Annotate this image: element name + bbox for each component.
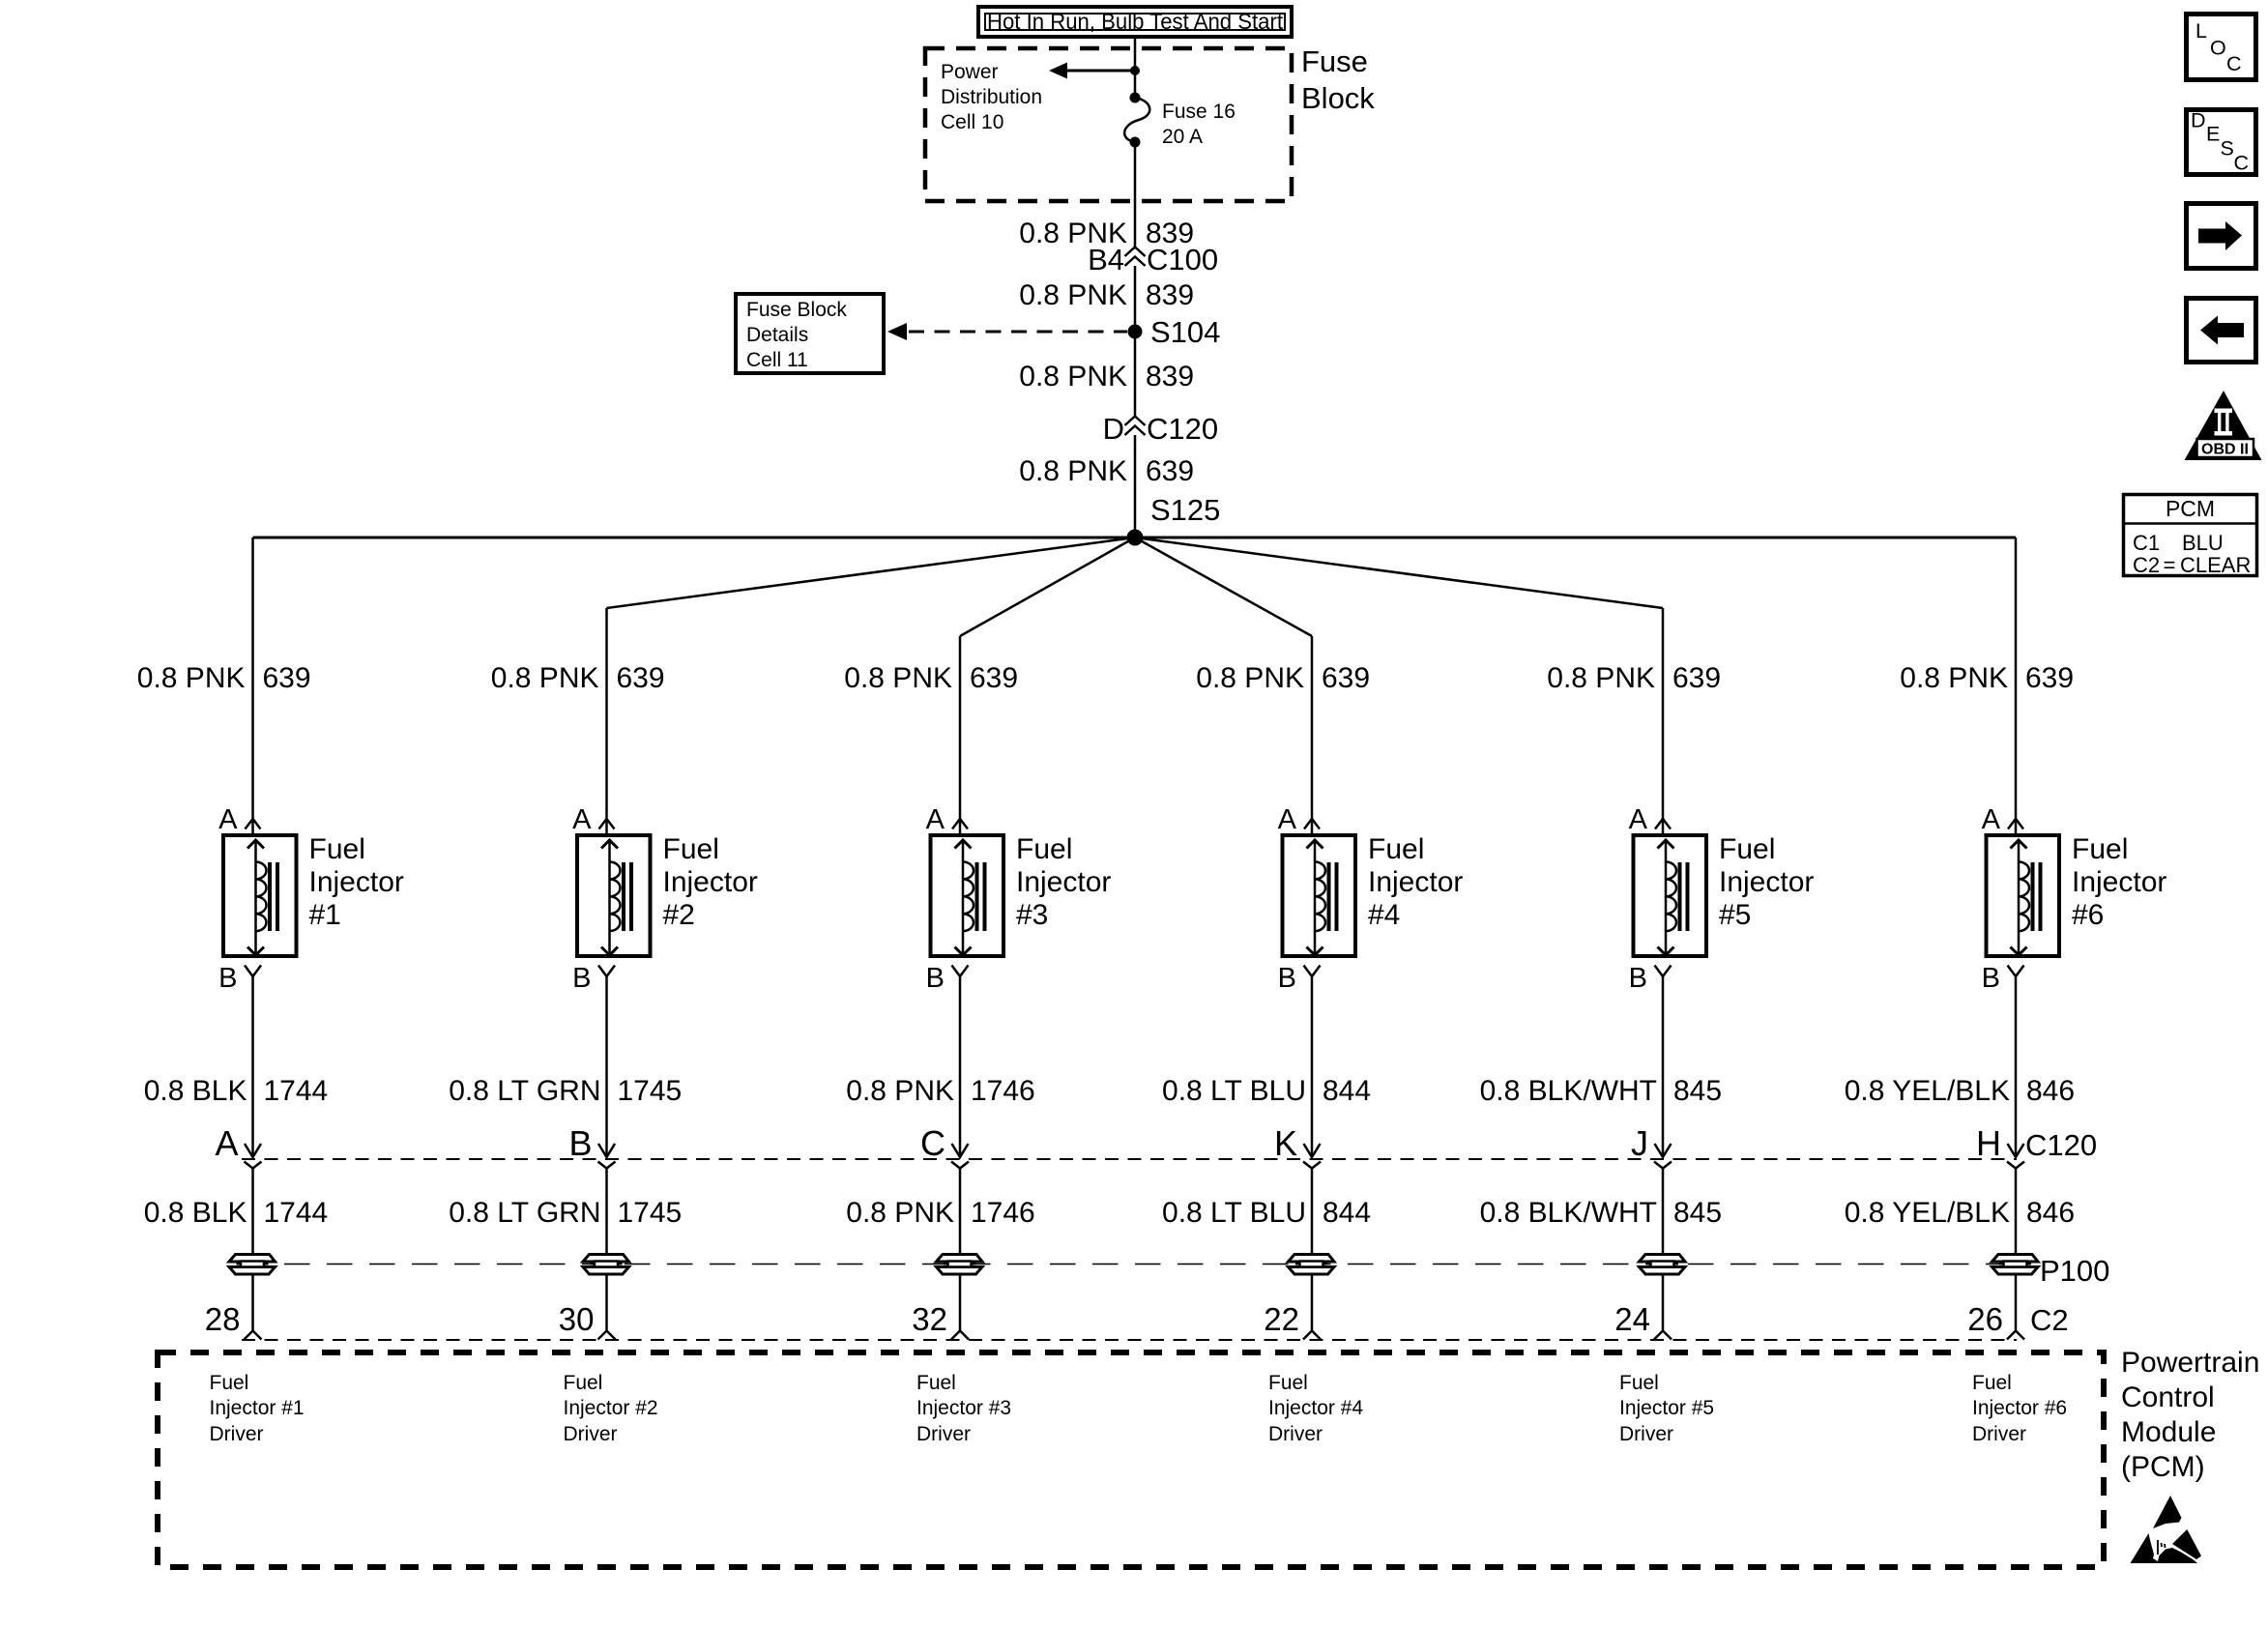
svg-text:Injector: Injector	[1719, 866, 1814, 898]
svg-text:839: 839	[1146, 279, 1194, 311]
wire label 0.8 LT GRN 1745 (above C120)	[449, 1075, 682, 1107]
svg-text:0.8 LT GRN: 0.8 LT GRN	[449, 1197, 600, 1229]
PCM driver function label 4	[1268, 1372, 1363, 1445]
wire 1744 segment C120 to PCM pin	[251, 1169, 254, 1331]
svg-text:B: B	[568, 1123, 592, 1163]
svg-text:BLU: BLU	[2182, 531, 2224, 555]
svg-text:0.8 PNK: 0.8 PNK	[491, 662, 599, 694]
svg-text:Fuel: Fuel	[1719, 833, 1775, 865]
wire label 0.8 PNK 639 branch 3	[844, 662, 1018, 694]
svg-text:Block: Block	[1301, 81, 1375, 115]
wire 844 segment C120 to PCM pin	[1311, 1169, 1314, 1331]
wire 845 segment C120 to PCM pin	[1662, 1169, 1665, 1331]
svg-text:A: A	[1278, 804, 1297, 835]
svg-text:Cell 10: Cell 10	[941, 111, 1003, 133]
svg-text:Cell 11: Cell 11	[746, 349, 808, 371]
svg-text:A: A	[926, 804, 945, 835]
svg-text:846: 846	[2026, 1197, 2075, 1229]
svg-text:30: 30	[559, 1301, 595, 1337]
svg-text:844: 844	[1323, 1075, 1371, 1107]
svg-text:B: B	[1629, 963, 1647, 994]
svg-text:639: 639	[1672, 662, 1721, 694]
PCM driver function label 6	[1972, 1372, 2067, 1445]
svg-text:Fuse: Fuse	[1301, 44, 1368, 78]
svg-text:0.8 LT BLU: 0.8 LT BLU	[1162, 1197, 1306, 1229]
svg-text:Injector: Injector	[663, 866, 758, 898]
wire 844 segment injector 4 to C120	[1311, 976, 1314, 1157]
svg-text:C2: C2	[2030, 1303, 2069, 1337]
PCM pin 30 terminal chevron	[598, 1331, 616, 1340]
connector C120 pin D chevrons	[1125, 417, 1146, 436]
svg-text:Driver: Driver	[564, 1423, 618, 1445]
svg-text:OBD II: OBD II	[2201, 442, 2249, 458]
svg-text:CLEAR: CLEAR	[2180, 553, 2251, 577]
svg-text:Powertrain: Powertrain	[2121, 1347, 2259, 1379]
svg-text:Fuse Block: Fuse Block	[746, 299, 847, 321]
svg-text:J: J	[1631, 1123, 1648, 1163]
svg-text:0.8 YEL/BLK: 0.8 YEL/BLK	[1845, 1075, 2010, 1107]
connector C2 dashed body line	[242, 1339, 2017, 1341]
PCM dashed outline box	[158, 1352, 2104, 1567]
wire label 0.8 LT BLU 844 (above C120)	[1162, 1075, 1371, 1107]
connector C100 pin B4 chevrons	[1125, 247, 1146, 267]
PCM driver function label 1	[210, 1372, 305, 1445]
connector C120 label (trunk)	[1103, 412, 1219, 446]
svg-text:20 A: 20 A	[1162, 126, 1203, 148]
svg-text:Power: Power	[941, 61, 999, 83]
injector 2 pin B	[572, 963, 615, 994]
wire label 0.8 PNK 639 branch 2	[491, 662, 665, 694]
svg-text:Injector #1: Injector #1	[210, 1397, 305, 1419]
svg-text:1744: 1744	[264, 1197, 329, 1229]
svg-text:#4: #4	[1368, 899, 1400, 931]
connector C120 pin A arrowhead	[245, 1144, 262, 1169]
svg-text:#2: #2	[663, 899, 695, 931]
svg-text:32: 32	[912, 1301, 947, 1337]
svg-text:K: K	[1274, 1123, 1297, 1163]
svg-text:C100: C100	[1147, 243, 1218, 276]
svg-text:C: C	[920, 1123, 945, 1163]
svg-text:P100: P100	[2040, 1254, 2109, 1288]
svg-text:Injector: Injector	[1368, 866, 1463, 898]
svg-text:D: D	[2191, 109, 2206, 132]
svg-text:Driver: Driver	[916, 1423, 971, 1445]
svg-text:0.8 LT BLU: 0.8 LT BLU	[1162, 1075, 1306, 1107]
svg-text:#3: #3	[1016, 899, 1048, 931]
connector C120 pin J arrowhead	[1654, 1144, 1672, 1169]
wire label 0.8 PNK 639 (trunk)	[1019, 455, 1194, 487]
svg-text:S125: S125	[1150, 493, 1220, 527]
connector C120 pin K arrowhead	[1303, 1144, 1321, 1169]
fuel injector #4 component box	[1283, 835, 1356, 956]
connector P100 pass-through symbol branch 4	[1289, 1255, 1335, 1275]
wire 1746 segment C120 to PCM pin	[959, 1169, 962, 1331]
fuel injector #5 name label	[1719, 833, 1814, 931]
svg-text:Fuel: Fuel	[1972, 1372, 2012, 1394]
svg-text:Driver: Driver	[1972, 1423, 2026, 1445]
svg-text:0.8 PNK: 0.8 PNK	[1019, 279, 1127, 311]
svg-text:Fuel: Fuel	[663, 833, 719, 865]
PCM pin 28 terminal chevron	[245, 1331, 262, 1340]
svg-text:0.8 PNK: 0.8 PNK	[846, 1075, 954, 1107]
splice S104	[1128, 325, 1143, 339]
fuse F16 20A symbol	[1124, 93, 1149, 148]
svg-text:0.8 PNK: 0.8 PNK	[1019, 455, 1127, 487]
svg-text:Injector #6: Injector #6	[1972, 1397, 2067, 1419]
svg-text:C1: C1	[2133, 531, 2160, 555]
svg-text:L: L	[2195, 19, 2207, 43]
connector C100 label	[1088, 243, 1218, 276]
PCM pin 24 terminal chevron	[1654, 1331, 1672, 1340]
connector P100 dashed body line	[242, 1264, 2017, 1265]
injector 2 pin A	[572, 804, 614, 835]
svg-text:#5: #5	[1719, 899, 1751, 931]
wire 1746 segment injector 3 to C120	[959, 976, 962, 1157]
wire label 0.8 PNK 639 branch 5	[1547, 662, 1721, 694]
svg-text:A: A	[218, 804, 238, 835]
svg-text:Injector: Injector	[2072, 866, 2166, 898]
wire label 0.8 BLK 1744 (below C120)	[144, 1197, 329, 1229]
wire label 0.8 YEL/BLK 846 (below C120)	[1845, 1197, 2075, 1229]
wire 639 PNK branch 2 vertical	[605, 608, 608, 835]
svg-text:#6: #6	[2072, 899, 2104, 931]
svg-text:(PCM): (PCM)	[2121, 1451, 2205, 1483]
svg-text:0.8 BLK: 0.8 BLK	[144, 1075, 247, 1107]
injector 1 pin A	[218, 804, 260, 835]
svg-text:B: B	[1982, 963, 2000, 994]
OBD II triangle icon	[2185, 391, 2262, 460]
junction dot at arrow takeoff	[1130, 66, 1140, 75]
svg-text:E: E	[2206, 123, 2220, 146]
injector 4 pin B	[1278, 963, 1321, 994]
right arrow nav icon	[2187, 204, 2256, 269]
ESD warning triangle icon	[2131, 1496, 2202, 1563]
svg-text:C120: C120	[1147, 412, 1218, 446]
wire fan-out diagonal to injector 5	[1135, 538, 1663, 608]
svg-text:Driver: Driver	[210, 1423, 264, 1445]
svg-text:A: A	[572, 804, 592, 835]
svg-text:28: 28	[205, 1301, 241, 1337]
svg-text:24: 24	[1614, 1301, 1650, 1337]
fuel injector #2 name label	[663, 833, 758, 931]
wire 639 PNK branch 3 vertical	[959, 636, 962, 835]
LOC nav icon	[2187, 15, 2256, 80]
svg-text:639: 639	[970, 662, 1018, 694]
fuel injector #2 component box	[577, 835, 651, 956]
svg-text:A: A	[1629, 804, 1648, 835]
fuel injector #6 name label	[2072, 833, 2166, 931]
injector 1 pin B	[218, 963, 261, 994]
power distribution cell reference text	[941, 61, 1042, 133]
svg-text:H: H	[1976, 1123, 2001, 1163]
svg-text:0.8 BLK/WHT: 0.8 BLK/WHT	[1480, 1075, 1657, 1107]
wire 639 PNK branch 6 vertical	[2015, 538, 2018, 835]
wire label 0.8 PNK 839 (3)	[1019, 361, 1194, 392]
svg-text:0.8 PNK: 0.8 PNK	[1196, 662, 1304, 694]
svg-text:845: 845	[1673, 1075, 1722, 1107]
svg-text:Control: Control	[2121, 1381, 2215, 1413]
svg-text:Injector #4: Injector #4	[1268, 1397, 1363, 1419]
svg-text:Fuel: Fuel	[916, 1372, 956, 1394]
wire 1745 segment injector 2 to C120	[605, 976, 608, 1157]
svg-text:B4: B4	[1088, 243, 1124, 276]
wire 639 PNK branch 5 vertical	[1662, 608, 1665, 835]
wire label 0.8 PNK 839 (1)	[1019, 218, 1194, 249]
svg-text:Driver: Driver	[1619, 1423, 1673, 1445]
PCM driver function label 2	[564, 1372, 658, 1445]
wire fan-out diagonal to injector 2	[607, 538, 1136, 608]
svg-text:Fuel: Fuel	[309, 833, 365, 865]
left arrow nav icon	[2187, 299, 2256, 363]
svg-text:Fuel: Fuel	[1268, 1372, 1308, 1394]
injector 6 pin B	[1982, 963, 2024, 994]
svg-text:B: B	[218, 963, 237, 994]
wire 846 segment C120 to PCM pin	[2015, 1169, 2018, 1331]
arrow to power distribution	[1049, 63, 1135, 79]
svg-text:639: 639	[263, 662, 311, 694]
wire 639 PNK branch 1 vertical	[251, 538, 254, 835]
wire label 0.8 PNK 639 branch 6	[1900, 662, 2074, 694]
svg-text:639: 639	[2025, 662, 2074, 694]
wire label 0.8 PNK 1746 (above C120)	[846, 1075, 1034, 1107]
svg-text:Fuel: Fuel	[210, 1372, 249, 1394]
svg-text:B: B	[572, 963, 591, 994]
connector C120 pin B arrowhead	[598, 1144, 616, 1169]
svg-text:S104: S104	[1150, 315, 1220, 349]
svg-text:Injector #3: Injector #3	[916, 1397, 1011, 1419]
fuse block name label	[1301, 44, 1375, 115]
svg-text:#1: #1	[309, 899, 341, 931]
splice S125 junction dot	[1127, 530, 1144, 546]
fuel injector #3 name label	[1016, 833, 1111, 931]
PCM driver function label 3	[916, 1372, 1011, 1445]
wire label 0.8 BLK/WHT 845 (above C120)	[1480, 1075, 1722, 1107]
PCM name label	[2121, 1347, 2259, 1483]
svg-text:Fuel: Fuel	[1619, 1372, 1659, 1394]
wire 639 PNK branch 4 vertical	[1311, 636, 1314, 835]
injector 3 pin A	[926, 804, 968, 835]
PCM pin 26 terminal chevron	[2007, 1331, 2024, 1340]
svg-text:Module: Module	[2121, 1416, 2216, 1448]
dashed reference arrow to fuse block details	[887, 323, 1127, 340]
wire label 0.8 LT BLU 844 (below C120)	[1162, 1197, 1371, 1229]
svg-text:B: B	[926, 963, 945, 994]
svg-text:839: 839	[1146, 361, 1194, 392]
wire 839 PNK segment fuse to C100	[1134, 142, 1137, 247]
svg-text:Injector #2: Injector #2	[564, 1397, 658, 1419]
wire fan-out diagonal to injector 4	[1135, 538, 1312, 636]
svg-text:1745: 1745	[618, 1075, 683, 1107]
wire label 0.8 LT GRN 1745 (below C120)	[449, 1197, 682, 1229]
fuse block details callout box	[736, 294, 884, 373]
svg-text:1746: 1746	[971, 1075, 1035, 1107]
fuel injector #1 name label	[309, 833, 404, 931]
svg-text:1744: 1744	[264, 1075, 329, 1107]
connector P100 pass-through symbol branch 6	[1992, 1255, 2039, 1275]
svg-text:A: A	[1982, 804, 2001, 835]
fuel injector #6 component box	[1987, 835, 2060, 956]
fuel injector #5 component box	[1634, 835, 1707, 956]
wire 846 segment injector 6 to C120	[2015, 976, 2018, 1157]
svg-text:1746: 1746	[971, 1197, 1035, 1229]
DESC nav icon	[2187, 109, 2256, 175]
fuel injector #1 component box	[223, 835, 297, 956]
svg-text:Fuel: Fuel	[564, 1372, 603, 1394]
PCM pin 22 terminal chevron	[1303, 1331, 1321, 1340]
svg-text:D: D	[1103, 412, 1124, 446]
connector P100 pass-through symbol branch 3	[937, 1255, 983, 1275]
svg-text:C120: C120	[2025, 1128, 2097, 1162]
PCM pin 32 terminal chevron	[951, 1331, 969, 1340]
svg-text:C2: C2	[2133, 553, 2160, 577]
wire label 0.8 PNK 639 branch 1	[137, 662, 311, 694]
svg-text:0.8 PNK: 0.8 PNK	[844, 662, 952, 694]
svg-text:22: 22	[1264, 1301, 1299, 1337]
PCM driver function label 5	[1619, 1372, 1714, 1445]
svg-text:B: B	[1278, 963, 1296, 994]
svg-text:0.8 YEL/BLK: 0.8 YEL/BLK	[1845, 1197, 2010, 1229]
connector P100 pass-through symbol branch 2	[583, 1255, 629, 1275]
fuel injector #3 component box	[931, 835, 1004, 956]
svg-text:Driver: Driver	[1268, 1423, 1323, 1445]
svg-text:26: 26	[1967, 1301, 2003, 1337]
injector 4 pin A	[1278, 804, 1320, 835]
svg-text:Injector: Injector	[309, 866, 404, 898]
wire 839 PNK segment C100 to S104	[1134, 266, 1137, 417]
wire trunk segment from title box into fuse block	[1134, 39, 1137, 97]
svg-text:639: 639	[617, 662, 665, 694]
svg-text:639: 639	[1322, 662, 1370, 694]
wire label 0.8 PNK 1746 (below C120)	[846, 1197, 1034, 1229]
wire label 0.8 BLK 1744 (above C120)	[144, 1075, 329, 1107]
svg-text:C: C	[2234, 152, 2250, 175]
svg-text:O: O	[2210, 37, 2226, 60]
svg-text:Injector #5: Injector #5	[1619, 1397, 1714, 1419]
wire 845 segment injector 5 to C120	[1662, 976, 1665, 1157]
svg-text:0.8 BLK: 0.8 BLK	[144, 1197, 247, 1229]
injector 5 pin B	[1629, 963, 1672, 994]
svg-text:0.8 PNK: 0.8 PNK	[846, 1197, 954, 1229]
svg-text:PCM: PCM	[2166, 496, 2215, 521]
svg-text:639: 639	[1146, 455, 1194, 487]
svg-text:Fuel: Fuel	[1016, 833, 1072, 865]
wire fan-out diagonal to injector 3	[960, 538, 1135, 636]
splice S125 bus bar	[253, 537, 2017, 539]
wire 1744 segment injector 1 to C120	[251, 976, 254, 1157]
svg-text:Distribution: Distribution	[941, 86, 1042, 108]
svg-text:0.8 LT GRN: 0.8 LT GRN	[449, 1075, 600, 1107]
svg-text:Hot In Run, Bulb Test And Star: Hot In Run, Bulb Test And Start	[987, 9, 1283, 34]
wire 639 PNK segment C120 to S125	[1134, 435, 1137, 538]
svg-text:Fuel: Fuel	[2072, 833, 2128, 865]
wire label 0.8 BLK/WHT 845 (below C120)	[1480, 1197, 1722, 1229]
svg-text:0.8 BLK/WHT: 0.8 BLK/WHT	[1480, 1197, 1657, 1229]
connector C120 pin H arrowhead	[2007, 1144, 2024, 1169]
injector 3 pin B	[926, 963, 969, 994]
injector 5 pin A	[1629, 804, 1671, 835]
svg-text:0.8 PNK: 0.8 PNK	[1547, 662, 1655, 694]
svg-text:Details: Details	[746, 324, 808, 346]
injector 6 pin A	[1982, 804, 2023, 835]
svg-text:844: 844	[1323, 1197, 1371, 1229]
fuel injector #4 name label	[1368, 833, 1463, 931]
connector P100 pass-through symbol branch 5	[1640, 1255, 1686, 1275]
svg-text:1745: 1745	[618, 1197, 683, 1229]
svg-text:=: =	[2164, 553, 2176, 577]
svg-text:Fuse 16: Fuse 16	[1162, 101, 1236, 123]
wire 1745 segment C120 to PCM pin	[605, 1169, 608, 1331]
svg-text:0.8 PNK: 0.8 PNK	[1019, 361, 1127, 392]
svg-text:C: C	[2226, 52, 2242, 75]
connector P100 pass-through symbol branch 1	[229, 1255, 276, 1275]
svg-text:0.8 PNK: 0.8 PNK	[1900, 662, 2008, 694]
wire label 0.8 PNK 639 branch 4	[1196, 662, 1370, 694]
svg-text:S: S	[2221, 137, 2234, 160]
PCM connector color legend table	[2123, 495, 2257, 578]
fuse value label	[1162, 101, 1236, 148]
svg-text:846: 846	[2026, 1075, 2075, 1107]
svg-text:A: A	[215, 1123, 238, 1163]
svg-text:845: 845	[1673, 1197, 1722, 1229]
svg-text:0.8 PNK: 0.8 PNK	[137, 662, 246, 694]
connector C120 dashed body line	[242, 1158, 2017, 1160]
svg-text:Fuel: Fuel	[1368, 833, 1424, 865]
wire label 0.8 YEL/BLK 846 (above C120)	[1845, 1075, 2075, 1107]
power feed title box "Hot In Run, Bulb Test And Start"	[978, 7, 1292, 37]
fuse block dashed box	[925, 48, 1292, 201]
wire label 0.8 PNK 839 (2)	[1019, 279, 1194, 311]
connector C120 pin C arrowhead	[951, 1144, 969, 1169]
svg-text:Injector: Injector	[1016, 866, 1111, 898]
